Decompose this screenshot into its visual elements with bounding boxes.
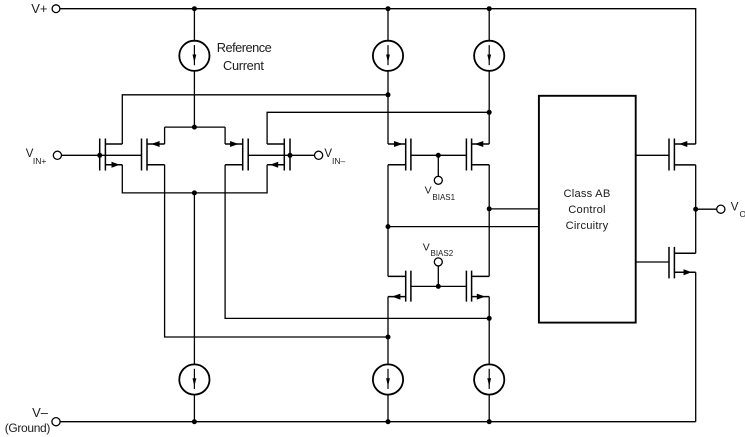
transistor M4 input outer-right <box>267 139 290 171</box>
current source I5 bottom middle <box>373 364 403 394</box>
wire outer-left drain loop <box>122 95 388 144</box>
terminal VIN+ <box>53 151 61 159</box>
junction dot left box node <box>386 224 391 229</box>
wire right column to sink <box>488 297 490 365</box>
terminal VIN- <box>315 151 323 159</box>
wire left cascode column <box>387 165 389 277</box>
wire VIN+ gate lead <box>62 154 142 156</box>
wire VBIAS2 common gate <box>411 266 467 287</box>
current source I2 top middle <box>373 41 403 71</box>
junction dot bottom rail left <box>192 419 197 424</box>
wire inner-right source run <box>225 165 489 319</box>
transistor M5 cascode pmos left <box>388 139 411 171</box>
wire bottom sink lead left <box>193 395 195 422</box>
wire box to upper output gate <box>636 154 669 156</box>
transistor M1 input outer-left <box>100 139 123 171</box>
transistor M7 cascode nmos left <box>388 271 411 302</box>
junction dot reference feed <box>192 125 197 130</box>
junction dot bottom rail middle <box>386 419 391 424</box>
svg-text:O: O <box>740 209 745 219</box>
wire right cascode column <box>488 165 490 277</box>
junction dot right drain node <box>487 110 492 115</box>
transistor M9 output upper <box>669 139 696 171</box>
terminal VO <box>717 205 725 213</box>
wire middle column top lead upper <box>387 9 389 41</box>
svg-text:Class AB: Class AB <box>564 188 611 200</box>
wire middle column top lead lower <box>387 71 389 144</box>
wire inner-left source run <box>165 165 388 337</box>
wire bottom rail V- <box>60 421 696 423</box>
svg-text:Control: Control <box>568 204 605 216</box>
wire output lower source to rail <box>695 272 697 422</box>
junction dot VBIAS1 node <box>436 153 441 158</box>
wire VBIAS1 common gate <box>411 155 467 176</box>
terminal VBIAS2 <box>434 258 442 266</box>
wire bottom sink lead right <box>488 395 490 422</box>
current source I3 top right <box>474 41 504 71</box>
wire top rail V+ <box>60 9 696 144</box>
junction dot right sink node <box>487 316 492 321</box>
wire bottom sink lead middle <box>387 395 389 422</box>
junction dot VIN- gate <box>288 153 293 158</box>
transistor M8 cascode nmos right <box>466 271 489 302</box>
junction dot left sink node <box>386 335 391 340</box>
svg-text:BIAS1: BIAS1 <box>432 193 455 202</box>
junction dot right box node <box>487 206 492 211</box>
wire box to lower output gate <box>636 261 669 263</box>
junction dot VBIAS2 node <box>436 284 441 289</box>
svg-text:IN–: IN– <box>332 156 346 166</box>
wire inner drain bar <box>165 127 226 144</box>
svg-text:BIAS2: BIAS2 <box>431 249 454 258</box>
svg-text:V–: V– <box>32 405 49 420</box>
junction dot VIN+ gate <box>97 153 102 158</box>
junction dot top rail middle <box>386 6 391 11</box>
current source I6 bottom right <box>474 364 504 394</box>
wire output node column <box>695 165 697 253</box>
wire left column to sink <box>387 297 389 365</box>
wire VO lead <box>696 208 717 210</box>
svg-text:V: V <box>423 241 430 253</box>
svg-text:Reference: Reference <box>217 40 272 55</box>
terminal V+ <box>52 5 60 13</box>
junction dot top rail left <box>192 6 197 11</box>
wire common source rail <box>122 165 267 193</box>
svg-text:V+: V+ <box>31 1 47 16</box>
transistor M6 cascode pmos right <box>466 139 489 171</box>
terminal V- <box>52 418 60 426</box>
wire outer-right drain loop <box>267 112 489 144</box>
svg-text:V: V <box>425 184 432 196</box>
junction dot left drain node <box>386 92 391 97</box>
transistor M10 output lower <box>669 247 696 279</box>
transistor M3 input inner-right <box>225 139 248 171</box>
current source I4 bottom left <box>179 364 209 394</box>
svg-text:Current: Current <box>223 58 264 73</box>
svg-text:V: V <box>731 202 739 214</box>
wire node to box upper-left <box>388 226 539 228</box>
wire reference current source bottom lead <box>193 71 195 127</box>
wire node to box left <box>489 208 539 210</box>
wire right column top lead upper <box>488 9 490 41</box>
junction dot tail node <box>192 190 197 195</box>
svg-text:IN+: IN+ <box>33 156 47 166</box>
wire tail current <box>193 193 195 365</box>
block Class AB Control Circuitry <box>539 96 636 323</box>
svg-text:(Ground): (Ground) <box>5 421 51 435</box>
current source I1 reference <box>179 41 209 71</box>
transistor M2 input inner-left <box>142 139 165 171</box>
terminal VBIAS1 <box>434 176 442 184</box>
junction dot output node <box>693 207 698 212</box>
junction dot bottom rail right <box>487 419 492 424</box>
junction dot top rail right <box>487 6 492 11</box>
wire reference current source top lead <box>193 9 195 41</box>
wire right column top lead lower <box>488 71 490 144</box>
svg-text:Circuitry: Circuitry <box>566 220 609 232</box>
wire VIN- gate lead <box>248 154 314 156</box>
